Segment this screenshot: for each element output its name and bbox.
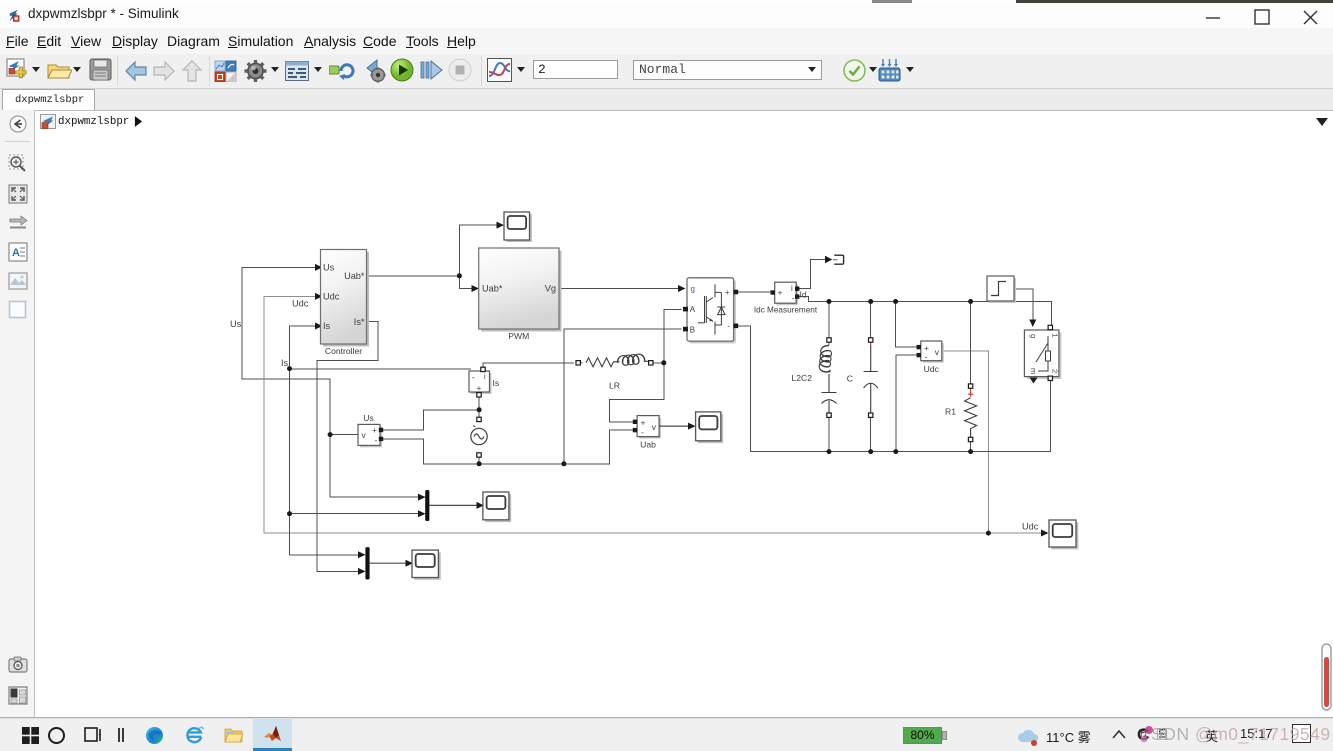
camera icon [8, 656, 28, 673]
stop [448, 58, 472, 82]
subsystem PWM [479, 248, 562, 341]
wire LR right lead [653, 362, 664, 364]
scope Udc display [1049, 520, 1078, 549]
gear [243, 58, 268, 84]
mux Mux2 [365, 547, 369, 579]
svg-text:Udc: Udc [1022, 522, 1039, 532]
arrowhead IGBT g input [678, 285, 686, 292]
pin Is sensor bottom terminal [477, 393, 481, 397]
ie [185, 726, 204, 745]
pin Breaker terminal 2 [1048, 376, 1052, 380]
wire AC source branch vertical [478, 395, 480, 464]
junction DC- rail at R1 [968, 449, 973, 454]
wire LR left lead from Is sensor [483, 363, 573, 370]
pin Idc i output [795, 287, 799, 291]
svg-text:Idc Measurement: Idc Measurement [754, 306, 818, 315]
svg-text:Is*: Is* [354, 317, 365, 327]
junction Uab* node [457, 273, 462, 278]
zoom icon [8, 154, 28, 174]
junction node A LR output [661, 360, 666, 365]
step back [363, 58, 389, 84]
svg-text:-: - [641, 427, 644, 437]
step fwd [419, 58, 444, 82]
config icon [285, 61, 309, 81]
arrowhead Controller Is input [315, 323, 323, 330]
svg-text:g: g [691, 285, 695, 294]
svg-text:Is: Is [281, 358, 289, 368]
separator [118, 728, 120, 742]
svg-text:Is: Is [323, 321, 331, 331]
library squares icon [214, 60, 238, 82]
pin IGBT B input [683, 327, 688, 332]
wire bottom DC rail: IGBT - to breaker 2 [736, 326, 1051, 452]
arrowhead PWM input [472, 285, 480, 292]
pin IGBT - output [734, 324, 739, 329]
arrows icon [8, 214, 28, 232]
svg-text:L2C2: L2C2 [791, 373, 812, 383]
svg-text:+: + [778, 288, 783, 298]
svg-text:B: B [690, 326, 695, 335]
junction DC- rail at C [868, 449, 873, 454]
svg-text:C: C [847, 374, 853, 384]
svg-text:2: 2 [1051, 369, 1060, 373]
svg-text:Uab*: Uab* [482, 284, 503, 294]
task view [84, 727, 102, 743]
run button [390, 58, 414, 82]
explorer [224, 727, 243, 744]
svg-text:A: A [690, 305, 696, 314]
edge [145, 726, 164, 745]
normal combo [633, 60, 822, 80]
AC source [471, 426, 487, 445]
svg-text:+: + [641, 418, 646, 428]
junction Is node [287, 366, 292, 371]
junction DC+ rail at L2C2 [827, 299, 832, 304]
pin C top terminal [869, 338, 873, 342]
wire Vg net: PWM output to IGBT gate [559, 288, 679, 290]
weather cloud [1017, 728, 1042, 746]
pin Idc + input [771, 290, 775, 294]
scope Scope2 [483, 492, 511, 522]
wire R1 branch leads [970, 302, 972, 452]
svg-text:Us: Us [230, 319, 242, 329]
pin Udc sensor - input [917, 353, 921, 357]
wire C branch leads [870, 302, 872, 452]
shunt branch L2C2 [819, 341, 836, 415]
junction node B rail [561, 461, 566, 466]
svg-text:-: - [727, 322, 730, 331]
wire Us + input lead [381, 410, 480, 430]
svg-text:-: - [792, 293, 795, 303]
junction DC+ rail at R1 [968, 299, 973, 304]
junction Us node [328, 432, 333, 437]
junction DC+ rail at C [868, 299, 873, 304]
wire Uab + lead [609, 363, 663, 422]
battery 80% [903, 727, 942, 744]
svg-text:+: + [477, 383, 482, 393]
back arrow [124, 59, 148, 83]
voltage sensor Uab [637, 416, 661, 450]
svg-text:Controller: Controller [325, 346, 362, 356]
junction DC- rail at L2C2 [827, 449, 832, 454]
current sensor Is [469, 371, 499, 394]
arrowhead Mux2 input 1 [358, 551, 366, 558]
svg-text:1: 1 [1051, 334, 1060, 338]
scope Scope3 [412, 550, 441, 580]
voltage sensor Udc [921, 341, 944, 374]
pin AC source top terminal [477, 417, 481, 421]
IGBT bridge U1 [687, 278, 736, 344]
csdn watermark [1138, 724, 1331, 745]
pin LR left terminal [576, 361, 580, 365]
app icon [8, 9, 25, 26]
svg-text:-: - [375, 435, 378, 445]
sim time field [533, 60, 618, 79]
sdi icon [487, 58, 512, 82]
svg-text:A: A [12, 247, 20, 259]
wire Id net: Idc output along top DC rail to breaker 1 [797, 297, 1051, 329]
wire L2C2 branch leads [828, 302, 830, 452]
svg-text:g: g [1029, 334, 1038, 338]
wire node A: LR right to IGBT A [664, 309, 681, 363]
wire IGBT + to Idc input [736, 291, 772, 293]
annotation icon [8, 242, 28, 262]
junction DC- rail at Udc [893, 449, 898, 454]
scope Uab Scope [696, 412, 724, 443]
svg-text:Udc: Udc [323, 292, 340, 302]
windows start [22, 727, 39, 744]
wire Mux1 output [429, 504, 477, 506]
pin R1 bottom terminal [968, 437, 972, 441]
wire Uab - lead and AC bottom rail [381, 430, 635, 464]
series branch LR [579, 354, 648, 367]
resistor R1 [965, 388, 977, 437]
wire Udc sensor + tap [896, 302, 919, 348]
arrowhead Breaker gate input [1029, 320, 1036, 328]
up arrow [181, 59, 203, 83]
junction Udc node [986, 531, 991, 536]
pin C bottom terminal [869, 413, 873, 417]
shunt capacitor C [864, 341, 878, 415]
svg-text:Vg: Vg [545, 284, 556, 294]
pin AC source bottom terminal [477, 453, 481, 457]
svg-text:Udc: Udc [924, 364, 940, 374]
save floppy [89, 58, 112, 83]
pin Udc sensor + input [917, 345, 921, 349]
image icon [8, 272, 28, 290]
matlab active [253, 719, 292, 751]
arrowhead Scope1 input [497, 222, 505, 229]
scope Scope1 [504, 212, 532, 242]
breaker Breaker [1024, 330, 1061, 384]
pin Us sensor - input [379, 437, 383, 441]
thermometer overlay [1321, 643, 1333, 713]
svg-text:PWM: PWM [508, 331, 529, 341]
svg-text:+: + [725, 288, 730, 297]
tray glyph jumble [1137, 725, 1152, 742]
wire node B: IGBT B to bottom rail [564, 329, 681, 464]
arrowhead Mux1 input 1 [418, 494, 426, 501]
junction DC+ rail at Udc [893, 299, 898, 304]
wire Us net: Us sensor output to Controller Us input and Mux1 top [242, 267, 425, 497]
step source Step [987, 276, 1016, 303]
collapse button [9, 115, 27, 133]
pin IGBT + output [734, 290, 739, 295]
svg-text:Us: Us [323, 263, 335, 273]
pin R1 top terminal [968, 384, 972, 388]
wire Udc net: Udc sensor output to display and Controller Udc input [264, 296, 1043, 533]
box icon [8, 300, 28, 320]
pin IGBT A input [683, 307, 688, 312]
svg-text:Is: Is [493, 378, 500, 388]
pin L2C2 top terminal [827, 338, 831, 342]
junction AC bottom [477, 461, 482, 466]
wire Uab v output to scope [659, 425, 689, 427]
svg-text:LR: LR [609, 381, 620, 391]
junction Is to Mux1 [287, 511, 292, 516]
svg-text:+: + [372, 425, 377, 435]
goto tag Id [833, 255, 844, 264]
arrowhead Mux1 input 2 [418, 510, 426, 517]
current sensor Idc Measurement [754, 282, 818, 314]
wire Idc i output to Goto tag [797, 260, 827, 289]
arrowhead Controller Udc input [315, 293, 323, 300]
connect/update icon [329, 62, 355, 81]
new model icon [6, 58, 32, 84]
layout icon [8, 686, 28, 705]
pin Uab sensor + input [633, 420, 637, 424]
pin LR right terminal [649, 361, 653, 365]
pin Breaker terminal 1 [1048, 325, 1052, 329]
svg-text:Uab*: Uab* [344, 271, 365, 281]
svg-text:-: - [472, 372, 475, 382]
svg-text:Us: Us [363, 413, 374, 423]
pin L2C2 bottom terminal [827, 413, 831, 417]
svg-text:m: m [1029, 368, 1038, 374]
pin Us sensor + input [379, 428, 383, 432]
svg-text:Id: Id [800, 290, 807, 300]
wire Is net: Is sensor output to Controller Is input, Mux1 bottom, Mux2 top [290, 326, 471, 555]
pin Idc - output [795, 294, 799, 298]
arrowhead Goto tag input [825, 256, 832, 264]
cortana [47, 726, 66, 745]
svg-text:-: - [925, 352, 928, 362]
wire Mux2 output [370, 562, 407, 564]
wire Is* net: Controller Is* output to Mux2 bottom [317, 322, 378, 572]
voltage sensor Us [358, 413, 382, 447]
fwd arrow [152, 59, 176, 83]
mux Mux1 [425, 490, 429, 521]
svg-text:Uab: Uab [640, 440, 656, 450]
arrowhead Mux2 input 2 [358, 568, 366, 575]
fit view icon [8, 184, 28, 204]
arrowhead Udc display input [1041, 530, 1049, 537]
pin Uab sensor - input [633, 428, 637, 432]
open folder [47, 60, 72, 82]
arrowhead Controller Us input [315, 264, 323, 271]
svg-text:Udc: Udc [292, 299, 309, 309]
subsystem Controller [321, 250, 370, 356]
wire Uab* net: Controller Uab* output to PWM input and Scope1 [367, 225, 499, 288]
wire Udc sensor - to bottom rail [896, 355, 919, 452]
svg-text:R1: R1 [945, 407, 956, 417]
pin Is sensor top terminal [481, 367, 485, 371]
junction AC top [477, 407, 482, 412]
library browser icon [878, 58, 901, 82]
wire Step output to breaker gate [1014, 289, 1033, 320]
check icon [843, 59, 866, 82]
